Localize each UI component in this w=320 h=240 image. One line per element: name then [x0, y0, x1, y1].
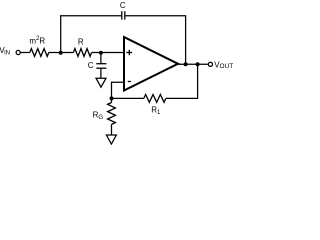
- resistor R1: [144, 95, 166, 103]
- node VOUT terminal: [208, 62, 212, 66]
- wire inverting input: [112, 82, 125, 98]
- resistor R: [73, 49, 91, 57]
- wire stub to capacitor C2: [100, 53, 102, 64]
- node D junction (top C feedback): [184, 62, 188, 66]
- wire vertical to top rail: [60, 16, 62, 53]
- capacitor C (to ground): [96, 63, 106, 65]
- svg-text:C: C: [88, 61, 94, 70]
- wire right vertical down to output: [185, 16, 187, 64]
- svg-text:R: R: [78, 37, 84, 46]
- svg-text:C: C: [120, 1, 126, 10]
- wire R to op-amp: [92, 52, 124, 54]
- node C junction (inverting/RG/R1): [110, 96, 114, 100]
- wire main input line: [49, 52, 74, 54]
- ground (under RG): [106, 135, 116, 144]
- resistor m^2R: [30, 49, 49, 57]
- wire feedback bottom left: [112, 97, 144, 99]
- pin - (inverting): [128, 81, 131, 83]
- wire top rail right: [125, 15, 186, 17]
- wire cap to ground: [100, 68, 102, 78]
- wire top rail left: [60, 15, 121, 17]
- wire feedback bottom right: [166, 97, 198, 99]
- wire input stub: [20, 52, 30, 54]
- capacitor C (top feedback): [121, 11, 123, 19]
- wire stub node to RG: [111, 98, 113, 102]
- wire RG to ground: [111, 124, 113, 135]
- resistor RG: [108, 103, 116, 125]
- wire output: [178, 63, 209, 65]
- ground (under C): [96, 78, 106, 87]
- wire feedback vertical up: [197, 64, 199, 99]
- pin + (noninverting): [127, 52, 133, 54]
- node A junction: [59, 51, 63, 55]
- op-amp U1: [124, 37, 178, 91]
- node E junction (R1 feedback): [196, 62, 200, 66]
- node VIN terminal: [16, 50, 20, 54]
- node B junction: [99, 51, 103, 55]
